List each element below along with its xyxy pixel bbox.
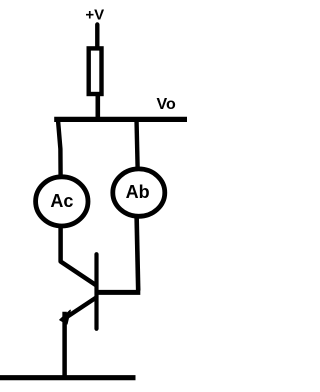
current source Ac (circle) xyxy=(36,177,88,226)
transistor Q1 emitter diagonal xyxy=(66,297,97,317)
wire Vo rail xyxy=(54,117,188,122)
wire Ab to transistor (horizontal) xyxy=(97,290,141,295)
svg-text:+V: +V xyxy=(85,7,104,24)
resistor R1 xyxy=(89,48,102,94)
wire emitter down xyxy=(62,312,67,378)
wire rail to Ab meter xyxy=(137,119,138,167)
transistor Q1 emitter arrowhead xyxy=(60,310,71,324)
wire rail to Ac meter xyxy=(58,119,61,177)
wire bottom rail xyxy=(0,375,136,380)
wire Ab down xyxy=(137,216,139,291)
svg-text:Ab: Ab xyxy=(126,182,150,202)
current source Ab (circle) xyxy=(113,169,165,216)
wire +V to resistor xyxy=(95,25,99,49)
svg-text:Ac: Ac xyxy=(50,191,73,211)
svg-text:Vo: Vo xyxy=(157,96,176,113)
transistor Q1 base bar xyxy=(94,254,98,329)
wire Ac to transistor collector (bend + diagonal) xyxy=(61,226,97,286)
wire resistor to Vo rail xyxy=(96,94,101,120)
